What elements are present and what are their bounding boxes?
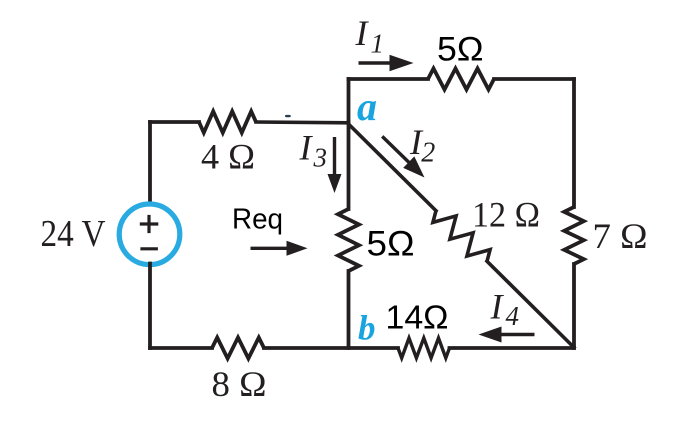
svg-text:2: 2	[421, 137, 435, 168]
svg-text:I: I	[355, 13, 370, 53]
arrow I2 (points down-right along diagonal)	[382, 136, 410, 163]
arrow I3 (points down)	[333, 137, 336, 176]
svg-text:5Ω: 5Ω	[437, 31, 484, 69]
wire: left vertical bottom segment	[148, 264, 152, 349]
wire: bottom horizontal left of 8ohm	[150, 346, 212, 350]
wire: right vertical top segment	[572, 79, 576, 207]
wire: middle vertical, top wire down to node a	[347, 79, 351, 123]
svg-text:7 Ω: 7 Ω	[593, 216, 648, 256]
svg-text:Req: Req	[232, 203, 283, 235]
svg-text:b: b	[358, 309, 376, 348]
svg-text:a: a	[357, 84, 377, 129]
wire: 5ohm middle down to node b	[347, 271, 351, 348]
wire: 12ohm to bottom-right corner	[487, 261, 574, 347]
wire: bottom horizontal 8ohm to 14ohm	[264, 346, 398, 350]
wire: top horizontal right of 5ohm to corner	[494, 77, 574, 81]
resistor R6 8 ohm	[212, 338, 264, 359]
stray cyan dash above wire	[285, 115, 291, 117]
wire: top-left horizontal from corner to 4ohm	[150, 120, 199, 124]
svg-text:8 Ω: 8 Ω	[212, 364, 267, 404]
svg-text:4: 4	[506, 301, 520, 331]
voltage source V1 24V (circle)	[119, 204, 180, 265]
wire: top horizontal left of 5ohm top	[349, 77, 429, 81]
svg-text:4 Ω: 4 Ω	[201, 137, 255, 177]
svg-text:12 Ω: 12 Ω	[472, 195, 540, 235]
wire: 4ohm to node a junction	[256, 120, 348, 124]
svg-text:I: I	[299, 128, 314, 168]
svg-text:1: 1	[371, 29, 385, 59]
resistor R2 5 ohm (top)	[428, 69, 494, 90]
svg-text:I: I	[490, 287, 505, 327]
wire: node a down to 5ohm middle	[347, 122, 351, 209]
wire: diagonal from node a to 12ohm	[348, 124, 436, 211]
svg-text:24 V: 24 V	[41, 213, 106, 255]
resistor R7 14 ohm	[398, 338, 450, 358]
svg-text:14Ω: 14Ω	[386, 299, 449, 336]
resistor R5 7 ohm	[564, 207, 584, 264]
svg-text:5Ω: 5Ω	[367, 225, 415, 264]
resistor R3 5 ohm (middle vertical)	[338, 209, 359, 271]
resistor R1 4 ohm	[199, 111, 256, 132]
arrow Req (points right)	[251, 247, 289, 250]
plus sign inside source	[140, 222, 159, 225]
minus sign inside source	[140, 247, 158, 250]
resistor R4 12 ohm (diagonal)	[433, 211, 490, 262]
wire: bottom horizontal 14ohm to bottom-right corner	[450, 346, 575, 350]
svg-text:3: 3	[313, 143, 328, 173]
arrow I1 (points right)	[359, 61, 392, 64]
wire: left vertical top segment	[148, 122, 152, 205]
arrow I4 (points left)	[500, 333, 535, 336]
wire: right vertical bottom segment	[572, 264, 576, 348]
